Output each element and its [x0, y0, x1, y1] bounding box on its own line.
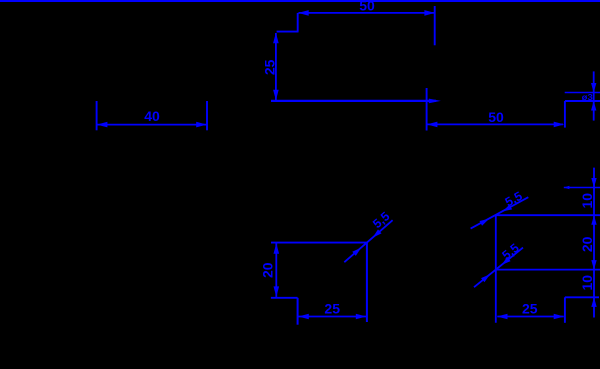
- svg-text:20: 20: [260, 262, 276, 278]
- svg-text:25: 25: [324, 301, 340, 317]
- svg-text:20: 20: [579, 236, 595, 252]
- svg-text:25: 25: [522, 300, 538, 316]
- svg-text:10: 10: [579, 193, 595, 209]
- svg-text:10: 10: [579, 275, 595, 291]
- svg-text:50: 50: [488, 109, 504, 125]
- svg-text:25: 25: [262, 59, 278, 75]
- svg-text:ø3: ø3: [582, 92, 593, 102]
- svg-text:50: 50: [359, 0, 375, 13]
- svg-text:40: 40: [144, 108, 160, 124]
